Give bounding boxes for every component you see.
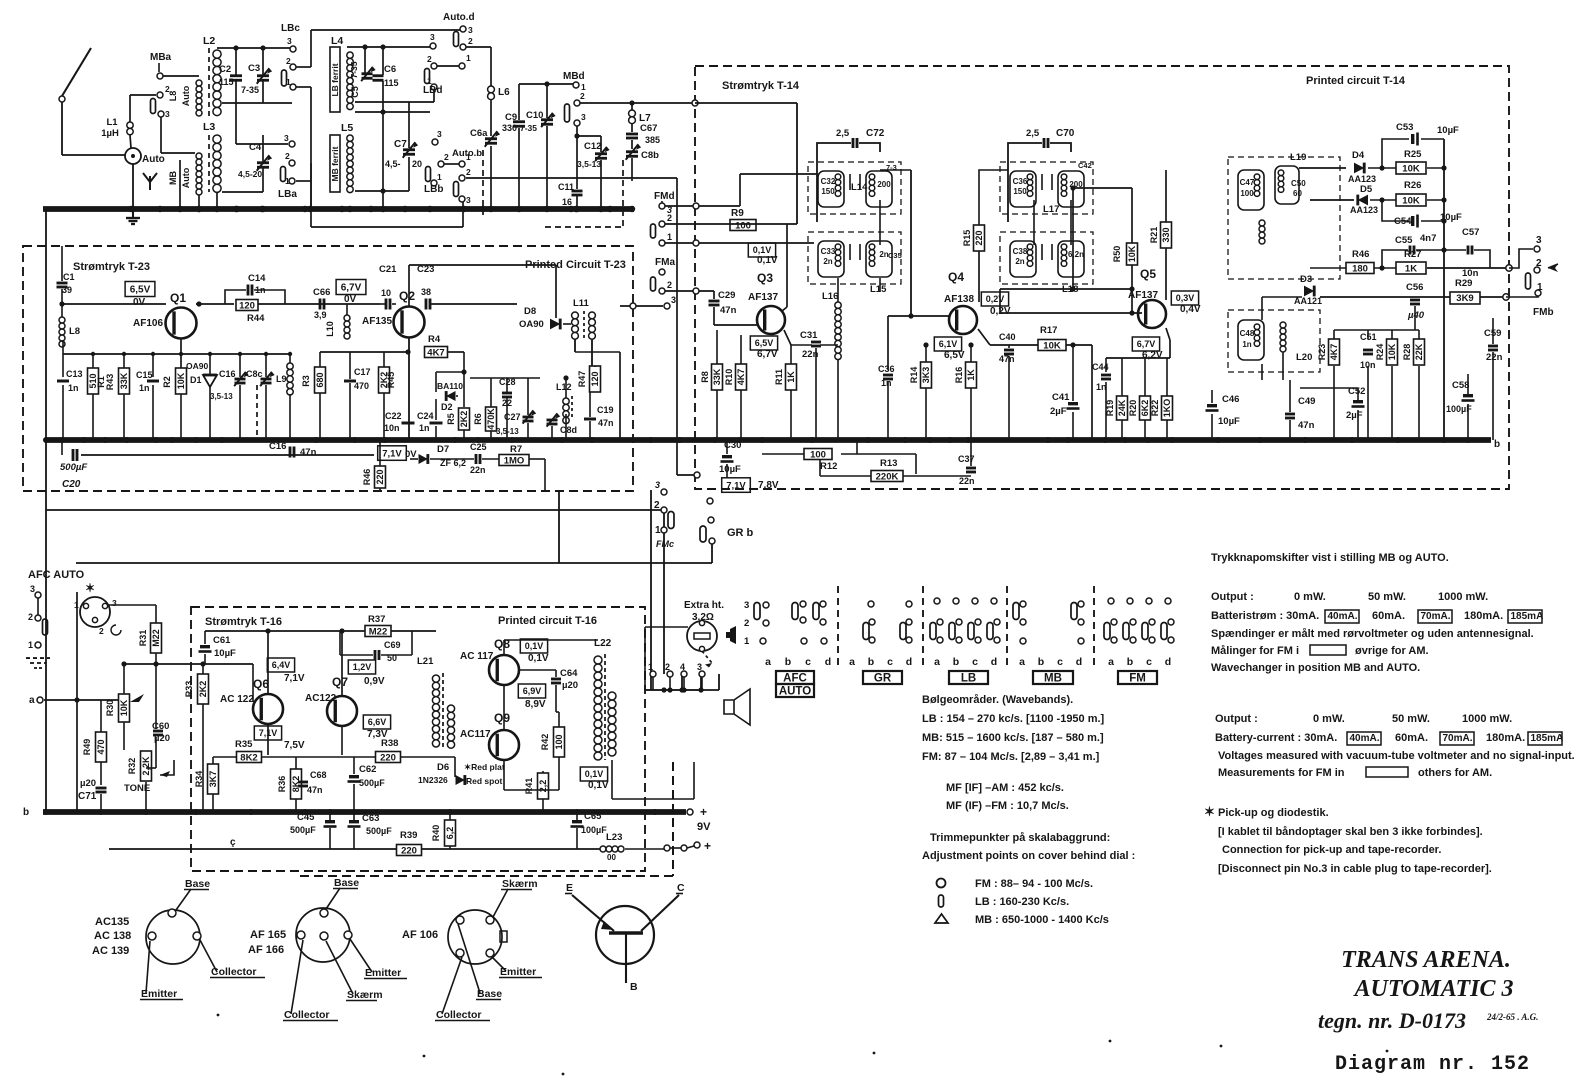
svg-text:0,2V: 0,2V <box>990 306 1011 317</box>
svg-text:D2: D2 <box>441 402 453 412</box>
svg-text:38: 38 <box>421 287 431 297</box>
svg-text:220: 220 <box>974 230 984 245</box>
svg-text:R25: R25 <box>1404 149 1422 160</box>
svg-text:6,7V: 6,7V <box>1137 339 1156 349</box>
svg-text:1: 1 <box>655 525 661 536</box>
svg-text:Q7: Q7 <box>332 675 348 689</box>
svg-text:R24: R24 <box>1375 344 1385 361</box>
svg-text:Q4: Q4 <box>948 270 964 284</box>
svg-text:D7: D7 <box>437 444 449 455</box>
svg-text:7,1V: 7,1V <box>259 728 278 738</box>
svg-text:OA90: OA90 <box>186 361 208 371</box>
svg-text:LB: LB <box>961 673 976 685</box>
svg-text:Diagram nr. 152: Diagram nr. 152 <box>1335 1053 1530 1076</box>
svg-text:20: 20 <box>412 159 422 169</box>
svg-text:Bølgeområder. (Wavebands).: Bølgeområder. (Wavebands). <box>922 694 1073 706</box>
svg-text:c: c <box>887 656 893 668</box>
svg-text:C45: C45 <box>297 812 315 823</box>
svg-text:Skærm: Skærm <box>502 878 538 890</box>
svg-text:R49: R49 <box>82 739 92 756</box>
svg-text:Q9: Q9 <box>494 711 510 725</box>
svg-text:R17: R17 <box>1040 325 1057 336</box>
svg-text:Pick-up og diodestik.: Pick-up og diodestik. <box>1218 807 1329 819</box>
svg-text:a: a <box>934 656 940 668</box>
svg-text:L11: L11 <box>573 298 590 309</box>
svg-text:AFC AUTO: AFC AUTO <box>28 569 85 581</box>
svg-text:Auto: Auto <box>181 85 191 106</box>
svg-text:MB: MB <box>168 171 178 185</box>
svg-text:2: 2 <box>667 280 672 290</box>
svg-text:+: + <box>700 805 707 819</box>
svg-text:Base: Base <box>477 988 502 1000</box>
svg-text:1: 1 <box>437 172 442 182</box>
svg-text:L8: L8 <box>69 326 80 337</box>
svg-text:C65: C65 <box>584 811 602 822</box>
svg-text:4n7: 4n7 <box>1420 233 1436 244</box>
svg-text:FMd: FMd <box>654 191 675 202</box>
svg-text:AC 117: AC 117 <box>460 651 494 662</box>
svg-text:D8: D8 <box>524 306 536 317</box>
svg-text:MF [IF] –AM : 452 kc/s.: MF [IF] –AM : 452 kc/s. <box>946 782 1064 794</box>
svg-text:3: 3 <box>744 600 749 611</box>
svg-text:R5: R5 <box>446 413 456 425</box>
svg-text:c: c <box>805 656 811 668</box>
svg-text:3: 3 <box>165 109 170 119</box>
svg-text:R23: R23 <box>1317 344 1327 361</box>
svg-text:Extra ht.: Extra ht. <box>684 600 724 611</box>
svg-text:R41: R41 <box>524 778 534 795</box>
svg-text:1n: 1n <box>1096 382 1107 392</box>
svg-text:330: 330 <box>1161 227 1171 242</box>
svg-text:6,9V: 6,9V <box>523 686 542 696</box>
svg-text:C1: C1 <box>63 272 75 282</box>
svg-text:9V: 9V <box>697 821 711 833</box>
svg-text:R35: R35 <box>235 739 253 750</box>
svg-text:8K2: 8K2 <box>291 776 301 793</box>
svg-text:4,5-: 4,5- <box>385 159 401 169</box>
svg-text:L8: L8 <box>168 91 178 102</box>
svg-text:R33: R33 <box>184 681 194 698</box>
svg-text:FM: FM <box>1129 673 1146 685</box>
svg-text:10K: 10K <box>176 372 186 389</box>
svg-text:6,5V: 6,5V <box>944 350 965 361</box>
svg-text:C64: C64 <box>560 668 578 679</box>
svg-text:a: a <box>29 695 35 706</box>
svg-text:AF138: AF138 <box>944 294 974 305</box>
svg-text:FM : 88– 94 - 100 Mc/s.: FM : 88– 94 - 100 Mc/s. <box>975 878 1093 890</box>
svg-text:0V: 0V <box>133 297 146 308</box>
svg-text:b: b <box>1127 656 1133 668</box>
svg-text:C29: C29 <box>718 290 735 301</box>
svg-text:7-35: 7-35 <box>520 123 537 133</box>
svg-text:22n: 22n <box>1486 352 1503 363</box>
svg-text:Skærm: Skærm <box>347 989 383 1001</box>
svg-text:220: 220 <box>380 752 396 763</box>
svg-text:220K: 220K <box>876 471 899 482</box>
svg-text:FMa: FMa <box>655 257 675 268</box>
svg-text:R8: R8 <box>700 371 710 383</box>
svg-text:3,5-13: 3,5-13 <box>210 392 233 401</box>
svg-text:E: E <box>566 882 573 894</box>
svg-text:AF 106: AF 106 <box>402 929 438 941</box>
svg-text:Spændinger er målt med rørvolt: Spændinger er målt med rørvoltmeter og u… <box>1211 628 1534 640</box>
svg-text:Output :: Output : <box>1211 591 1254 603</box>
svg-text:LBc: LBc <box>281 23 300 34</box>
svg-text:C42: C42 <box>1078 161 1092 170</box>
svg-text:120: 120 <box>590 371 600 386</box>
svg-text:3: 3 <box>430 32 435 42</box>
svg-text:b: b <box>1038 656 1044 668</box>
svg-text:00: 00 <box>607 853 616 862</box>
svg-text:10K: 10K <box>119 699 129 716</box>
svg-text:Wavechanger in position MB: Wavechanger in position MB and AUTO. <box>1211 662 1420 674</box>
svg-text:Adjustment points on cover: Adjustment points on cover behind dial : <box>922 850 1135 862</box>
svg-text:R37: R37 <box>368 614 385 625</box>
svg-text:C62: C62 <box>359 764 376 775</box>
svg-text:1n: 1n <box>1242 340 1251 349</box>
svg-text:3: 3 <box>581 112 586 122</box>
svg-text:C61: C61 <box>213 635 231 646</box>
svg-text:d: d <box>991 656 997 668</box>
svg-text:Q2: Q2 <box>399 289 415 303</box>
svg-text:47n: 47n <box>999 354 1015 364</box>
svg-text:L1: L1 <box>106 117 118 128</box>
svg-text:C16: C16 <box>269 441 286 452</box>
svg-text:C17: C17 <box>354 367 371 377</box>
svg-text:+: + <box>704 839 711 853</box>
svg-text:4K7: 4K7 <box>427 347 444 358</box>
svg-text:3: 3 <box>284 133 289 143</box>
svg-text:7-35: 7-35 <box>349 61 359 78</box>
svg-text:330: 330 <box>502 123 517 133</box>
svg-text:AF135: AF135 <box>362 316 392 327</box>
svg-text:L14: L14 <box>851 182 868 193</box>
svg-text:150: 150 <box>821 187 835 196</box>
svg-text:50 mW.: 50 mW. <box>1368 591 1406 603</box>
svg-text:R47: R47 <box>577 371 587 388</box>
svg-text:M22: M22 <box>151 629 161 647</box>
svg-text:100: 100 <box>554 734 564 749</box>
svg-text:C24: C24 <box>417 411 434 421</box>
svg-text:Trimmepunkter på skalabaggru: Trimmepunkter på skalabaggrund: <box>930 832 1110 844</box>
svg-text:R3: R3 <box>301 375 311 387</box>
svg-text:6,2: 6,2 <box>445 827 455 840</box>
svg-text:40mA.: 40mA. <box>1350 733 1380 744</box>
svg-text:R46: R46 <box>1352 249 1369 260</box>
svg-text:a: a <box>1108 656 1114 668</box>
svg-text:2: 2 <box>744 618 749 629</box>
svg-text:C53: C53 <box>1396 122 1413 133</box>
svg-text:Strømtryk T-14: Strømtryk T-14 <box>722 80 800 92</box>
svg-text:a: a <box>1019 656 1025 668</box>
svg-text:b: b <box>1494 439 1500 450</box>
svg-text:R9: R9 <box>731 208 744 219</box>
svg-text:MB : 650-1000 - 1400 Kc/s: MB : 650-1000 - 1400 Kc/s <box>975 914 1109 926</box>
svg-text:10K: 10K <box>1043 340 1061 351</box>
svg-text:470: 470 <box>96 739 106 754</box>
svg-text:L12: L12 <box>556 382 572 392</box>
svg-text:Auto: Auto <box>181 167 191 188</box>
svg-text:R43: R43 <box>105 374 115 391</box>
svg-text:100: 100 <box>1240 189 1254 198</box>
svg-text:AA123: AA123 <box>1350 205 1378 215</box>
svg-text:2: 2 <box>28 612 33 622</box>
svg-text:[Disconnect pin No.3 in cable: [Disconnect pin No.3 in cable plug to ta… <box>1218 863 1492 875</box>
svg-text:d: d <box>1076 656 1082 668</box>
svg-text:2n: 2n <box>1015 257 1024 266</box>
svg-text:C32: C32 <box>821 177 836 186</box>
svg-text:ç: ç <box>230 837 236 848</box>
svg-text:R21: R21 <box>1149 227 1159 244</box>
svg-text:C46: C46 <box>1222 394 1239 405</box>
svg-text:Batteristrøm : 30mA.: Batteristrøm : 30mA. <box>1211 610 1319 622</box>
svg-text:1: 1 <box>744 636 750 647</box>
svg-text:10µF: 10µF <box>1218 416 1240 427</box>
svg-text:R46: R46 <box>362 469 372 486</box>
svg-text:500µF: 500µF <box>366 826 392 836</box>
svg-text:d: d <box>825 656 831 668</box>
svg-text:R28: R28 <box>1402 344 1412 361</box>
svg-text:R50: R50 <box>1112 246 1122 263</box>
svg-text:470K: 470K <box>486 408 496 430</box>
svg-text:AFC: AFC <box>783 673 807 685</box>
svg-text:C36: C36 <box>1013 177 1028 186</box>
svg-text:L19: L19 <box>1290 152 1306 163</box>
svg-text:D5: D5 <box>1360 184 1373 195</box>
svg-text:2,2: 2,2 <box>538 780 548 793</box>
svg-text:MB ferrit: MB ferrit <box>330 146 340 181</box>
svg-text:R45: R45 <box>386 372 396 389</box>
svg-text:MB: MB <box>1044 673 1062 685</box>
svg-text:R40: R40 <box>431 825 441 842</box>
svg-text:L5: L5 <box>341 122 353 134</box>
svg-text:2,5: 2,5 <box>836 128 850 139</box>
svg-text:3: 3 <box>1536 235 1542 246</box>
svg-text:10K: 10K <box>1402 195 1420 206</box>
svg-text:L3: L3 <box>203 121 215 133</box>
svg-text:3: 3 <box>30 584 35 594</box>
svg-text:Red spot: Red spot <box>466 776 503 786</box>
svg-text:1K: 1K <box>966 369 976 381</box>
svg-text:2: 2 <box>427 54 432 64</box>
svg-text:TRANS ARENA.: TRANS ARENA. <box>1341 947 1511 973</box>
svg-text:AC 122: AC 122 <box>220 694 254 705</box>
svg-text:BA110: BA110 <box>437 381 463 391</box>
svg-text:AC135: AC135 <box>95 916 129 928</box>
svg-text:47n: 47n <box>598 418 614 428</box>
svg-text:10µF: 10µF <box>719 464 741 475</box>
svg-text:120: 120 <box>239 300 255 311</box>
svg-text:Målinger for FM i: Målinger for FM i <box>1211 645 1299 657</box>
svg-text:4K7: 4K7 <box>736 369 746 386</box>
svg-text:C5: C5 <box>350 86 360 98</box>
svg-text:øvrige for AM.: øvrige for AM. <box>1355 645 1429 657</box>
svg-text:220: 220 <box>375 469 385 484</box>
svg-text:180: 180 <box>1352 263 1368 274</box>
svg-text:0,4V: 0,4V <box>1180 304 1201 315</box>
svg-text:6,5V: 6,5V <box>130 285 151 296</box>
svg-text:C48: C48 <box>1240 329 1255 338</box>
svg-text:3: 3 <box>287 36 292 46</box>
svg-text:Battery-current : 30mA.: Battery-current : 30mA. <box>1215 732 1337 744</box>
svg-text:others for AM.: others for AM. <box>1418 767 1492 779</box>
svg-text:Strømtryk T-16: Strømtryk T-16 <box>205 616 282 628</box>
svg-text:180mA.: 180mA. <box>1486 732 1525 744</box>
svg-text:LBa: LBa <box>278 189 297 200</box>
svg-text:C49: C49 <box>1298 396 1315 407</box>
svg-text:b: b <box>23 807 29 818</box>
svg-text:C12: C12 <box>584 141 601 152</box>
svg-text:µ20: µ20 <box>562 680 578 691</box>
svg-text:6,4V: 6,4V <box>272 660 291 670</box>
svg-text:C63: C63 <box>362 813 379 824</box>
svg-text:0,2V: 0,2V <box>986 294 1005 304</box>
svg-text:C40: C40 <box>999 332 1016 342</box>
svg-text:C71: C71 <box>78 791 97 802</box>
svg-text:200: 200 <box>877 180 891 189</box>
svg-text:100µF: 100µF <box>581 825 607 835</box>
svg-text:C19: C19 <box>597 405 614 415</box>
svg-text:R34: R34 <box>194 771 204 788</box>
svg-text:b: b <box>785 656 791 668</box>
svg-text:3K9: 3K9 <box>1456 293 1473 304</box>
svg-text:47n: 47n <box>1298 420 1315 431</box>
svg-text:47n: 47n <box>300 447 317 458</box>
svg-text:185mA: 185mA <box>1511 611 1544 622</box>
svg-text:C70: C70 <box>1056 128 1075 139</box>
svg-text:C22: C22 <box>385 411 402 421</box>
svg-text:1MO: 1MO <box>504 455 525 466</box>
svg-text:C69: C69 <box>384 640 401 650</box>
svg-text:FMc: FMc <box>656 539 674 549</box>
svg-text:R36: R36 <box>277 776 287 793</box>
svg-text:R7: R7 <box>510 444 522 455</box>
svg-text:LB : 160-230 Kc/s.: LB : 160-230 Kc/s. <box>975 896 1069 908</box>
svg-text:3K7: 3K7 <box>208 771 218 788</box>
svg-text:C21: C21 <box>379 264 397 275</box>
svg-text:µ40: µ40 <box>1407 310 1425 321</box>
svg-text:1: 1 <box>466 53 471 63</box>
svg-text:185mA: 185mA <box>1531 733 1564 744</box>
svg-text:33K: 33K <box>712 368 722 385</box>
svg-text:7-35: 7-35 <box>241 85 259 95</box>
svg-text:1000 mW.: 1000 mW. <box>1438 591 1488 603</box>
svg-text:AUTOMATIC 3: AUTOMATIC 3 <box>1353 976 1514 1002</box>
svg-text:0,1V: 0,1V <box>528 653 549 664</box>
svg-text:2K2: 2K2 <box>198 681 208 698</box>
svg-text:D3: D3 <box>1300 274 1312 285</box>
svg-text:70mA.: 70mA. <box>1443 733 1473 744</box>
svg-text:7,1V: 7,1V <box>382 448 402 459</box>
svg-text:2: 2 <box>468 36 473 46</box>
svg-text:500µF: 500µF <box>359 778 385 788</box>
svg-text:16: 16 <box>562 197 572 207</box>
svg-text:Auto.d: Auto.d <box>443 12 475 23</box>
svg-text:Q3: Q3 <box>757 271 773 285</box>
svg-text:C38: C38 <box>1013 247 1028 256</box>
svg-text:Q6: Q6 <box>253 677 269 691</box>
svg-text:115: 115 <box>384 78 399 88</box>
svg-text:6,6V: 6,6V <box>368 717 387 727</box>
svg-text:1n: 1n <box>419 423 430 433</box>
svg-text:6,7V: 6,7V <box>341 283 362 294</box>
svg-text:C50: C50 <box>1291 179 1306 188</box>
svg-text:4,5-20: 4,5-20 <box>238 169 262 179</box>
svg-text:60: 60 <box>1293 189 1302 198</box>
svg-text:1K: 1K <box>1405 263 1417 274</box>
svg-text:2: 2 <box>444 152 449 162</box>
svg-text:1K: 1K <box>786 371 796 383</box>
svg-text:R20: R20 <box>1128 400 1138 417</box>
svg-text:C8d: C8d <box>560 425 577 435</box>
svg-text:L10: L10 <box>325 321 335 337</box>
svg-text:MF (IF) –FM : 10,7 Mc/s.: MF (IF) –FM : 10,7 Mc/s. <box>946 800 1069 812</box>
svg-text:L22: L22 <box>594 638 612 649</box>
svg-text:6,7V: 6,7V <box>757 349 778 360</box>
svg-text:0 mW.: 0 mW. <box>1313 713 1345 725</box>
svg-text:Voltages measured with vacu: Voltages measured with vacuum-tube voltm… <box>1218 750 1575 762</box>
svg-text:C68: C68 <box>310 770 327 780</box>
svg-text:180mA.: 180mA. <box>1464 610 1503 622</box>
svg-text:3,9: 3,9 <box>314 310 327 320</box>
svg-text:6K2: 6K2 <box>1140 400 1150 417</box>
svg-text:c: c <box>972 656 978 668</box>
svg-text:✶: ✶ <box>1204 804 1215 819</box>
svg-text:70mA.: 70mA. <box>1421 611 1451 622</box>
svg-text:1n: 1n <box>139 383 150 393</box>
svg-text:MB: 515 – 1600 kc/s. [187 – 5: MB: 515 – 1600 kc/s. [187 – 580 m.] <box>922 732 1104 744</box>
svg-text:R38: R38 <box>381 738 398 749</box>
svg-text:Emitter: Emitter <box>500 966 536 978</box>
svg-text:R26: R26 <box>1404 180 1421 191</box>
svg-text:Base: Base <box>185 878 210 890</box>
svg-text:1: 1 <box>667 232 672 242</box>
svg-text:10µF: 10µF <box>1437 125 1459 136</box>
svg-text:Strømtryk T-23: Strømtryk T-23 <box>73 261 150 273</box>
svg-text:115: 115 <box>219 77 234 87</box>
svg-text:R42: R42 <box>540 734 550 751</box>
svg-text:D4: D4 <box>1352 150 1365 161</box>
svg-text:µ20: µ20 <box>80 778 96 789</box>
svg-text:0,3V: 0,3V <box>1176 293 1195 303</box>
svg-text:OA90: OA90 <box>519 319 544 330</box>
svg-text:3: 3 <box>112 598 117 608</box>
svg-text:AUTO: AUTO <box>779 686 811 698</box>
svg-text:2K2: 2K2 <box>459 411 469 428</box>
svg-text:c: c <box>1057 656 1063 668</box>
svg-text:L23: L23 <box>606 832 622 843</box>
svg-text:7,1V: 7,1V <box>284 673 305 684</box>
svg-text:C6: C6 <box>384 64 396 75</box>
svg-text:10K: 10K <box>1127 245 1137 262</box>
svg-text:6,5V: 6,5V <box>755 338 774 348</box>
svg-text:47n: 47n <box>720 305 737 316</box>
svg-text:1N2326: 1N2326 <box>418 775 448 785</box>
svg-text:R16: R16 <box>954 367 964 384</box>
svg-text:220: 220 <box>401 845 417 856</box>
svg-text:C55: C55 <box>1395 235 1413 246</box>
svg-text:C72: C72 <box>866 128 885 139</box>
svg-text:0,1V: 0,1V <box>585 769 604 779</box>
svg-text:2: 2 <box>580 91 585 101</box>
svg-text:LBb: LBb <box>424 184 443 195</box>
svg-text:L15: L15 <box>870 284 887 295</box>
svg-text:3: 3 <box>437 129 442 139</box>
svg-text:Output :: Output : <box>1215 713 1258 725</box>
svg-text:1n: 1n <box>68 383 79 393</box>
svg-text:R44: R44 <box>247 313 265 324</box>
svg-text:24K: 24K <box>1117 399 1127 416</box>
